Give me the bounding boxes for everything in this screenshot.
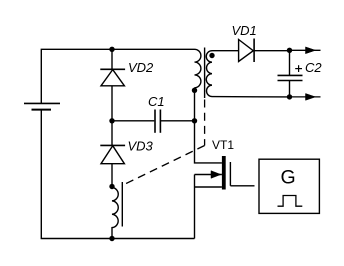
output arrow minus (290, 94, 321, 101)
svg-text:C1: C1 (148, 94, 165, 109)
svg-text:VD1: VD1 (232, 23, 257, 38)
node junction bottom rail (109, 236, 114, 241)
wire node A to VD3 (111, 121, 113, 146)
svg-text:VD2: VD2 (128, 60, 154, 75)
output arrow plus (290, 47, 321, 54)
svg-text:VD3: VD3 (128, 139, 154, 154)
wire VD2 to node A (111, 86, 113, 121)
core line L3 (121, 182, 123, 227)
node B junction (C1 right / drain) (192, 118, 197, 123)
diode VD1 (239, 39, 255, 63)
polarity dot winding L1 start (192, 88, 197, 93)
svg-text:G: G (281, 166, 296, 188)
wire drain lead VT1 (195, 121, 222, 163)
diode VD2 (100, 69, 125, 86)
transistor VT1 gate line (229, 162, 231, 186)
battery GB1 (24, 103, 60, 109)
wire left rail lower (41, 110, 194, 239)
node A junction (C1 left) (109, 118, 114, 123)
polarity dot winding L2 start (209, 53, 214, 58)
wire top rail (41, 49, 194, 103)
wire source lead VT1 (195, 186, 222, 188)
node junction top of VD2 branch (109, 47, 114, 52)
capacitor C1 (155, 110, 160, 133)
winding L1 primary (195, 49, 201, 87)
winding L3 feedback (112, 188, 118, 239)
winding L2 secondary (206, 51, 212, 97)
wire VD1 to output plus (254, 50, 290, 52)
wire VD2 anode branch (111, 49, 113, 69)
polarity dot winding L3 start (109, 184, 114, 189)
wire L2 bottom to output minus (212, 96, 290, 98)
pulse symbol (278, 196, 303, 207)
wire source down to rail (194, 175, 196, 239)
wire C2 bottom lead (289, 81, 291, 97)
transistor VT1 channel bar (222, 156, 226, 190)
wire L2 top to VD1 (212, 50, 239, 52)
diode VD3 (100, 145, 125, 163)
wire C1 left (112, 120, 154, 122)
wire VD3 to winding L3 (111, 164, 113, 187)
svg-text:C2: C2 (305, 60, 322, 75)
plus sign C2 (295, 65, 302, 72)
wire C1 right (160, 120, 194, 122)
svg-text:VT1: VT1 (212, 138, 234, 152)
wire L1 bottom to node B (194, 88, 196, 121)
transformer core T1 (204, 48, 206, 99)
wire C2 top lead (289, 50, 291, 75)
node junction output minus (287, 94, 292, 99)
node junction output plus (287, 48, 292, 53)
core dashed coupling vertical (204, 100, 206, 146)
wire gate lead to G (230, 185, 254, 187)
capacitor C2 polarized (278, 75, 303, 80)
core dashed coupling diagonal (122, 146, 205, 186)
generator box G (259, 159, 319, 213)
substrate arrow VT1 (195, 171, 222, 179)
